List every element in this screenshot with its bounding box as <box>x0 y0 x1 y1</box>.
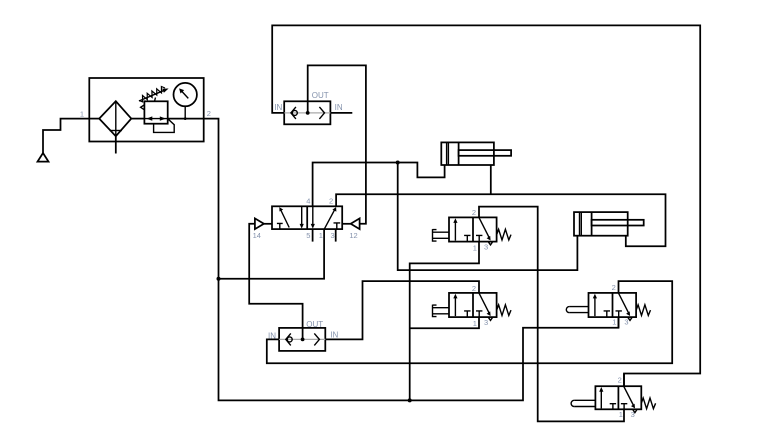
svg-text:1: 1 <box>80 109 84 118</box>
wire port 2 of 5/2 to cylinder C2 right <box>336 194 665 246</box>
svg-text:2: 2 <box>472 208 476 217</box>
pressure regulator <box>139 87 174 133</box>
cylinder C1 <box>441 142 511 165</box>
label 3 V1 <box>484 243 488 252</box>
label 2 V3 <box>612 283 616 292</box>
label IN left S2 <box>268 331 276 340</box>
wire S1 OUT to pilot 12 <box>308 65 366 223</box>
exhaust stub port 5 <box>312 229 314 242</box>
svg-text:OUT: OUT <box>306 320 323 329</box>
wire port 4 to cylinder C1 left <box>313 163 445 207</box>
svg-text:3: 3 <box>624 318 628 327</box>
wire V3 port 1 from supply rail <box>618 317 620 328</box>
wire pilot 14 to shuttle S2 OUT <box>249 224 302 340</box>
svg-text:1: 1 <box>473 243 477 252</box>
junction bottom rail <box>408 398 412 402</box>
pilot 12 triangle <box>342 218 359 229</box>
svg-text:1: 1 <box>619 410 623 419</box>
air service unit enclosure <box>89 78 203 142</box>
label port 1 service unit <box>80 109 84 118</box>
svg-text:IN: IN <box>335 103 343 112</box>
filter with water separator <box>89 101 144 153</box>
3/2 valve V4 body <box>595 386 655 412</box>
label 2 V2 <box>472 284 476 293</box>
label 1 V2 <box>473 319 477 328</box>
svg-text:1: 1 <box>319 231 323 240</box>
label 3 of 5/2 <box>331 231 335 240</box>
svg-text:2: 2 <box>207 109 211 118</box>
label 4 <box>306 197 310 206</box>
supply wire from service unit to junction <box>204 119 219 279</box>
wire branch to cylinder C2 left <box>398 163 578 271</box>
wire supply to port 1 of 5/2 valve <box>219 229 325 279</box>
3/2 valve V1 body <box>449 217 511 245</box>
svg-text:3: 3 <box>631 410 635 419</box>
exhaust stub port 3 of 5/2 <box>335 229 337 242</box>
label 2 of 5/2 <box>329 197 333 206</box>
label 3 V3 <box>624 318 628 327</box>
wire S1 left IN long loop from valve V4 port 2 <box>272 25 700 386</box>
label 12 <box>349 231 357 240</box>
svg-text:IN: IN <box>330 330 338 339</box>
svg-text:2: 2 <box>618 375 622 384</box>
svg-text:2: 2 <box>329 197 333 206</box>
svg-text:OUT: OUT <box>312 91 329 100</box>
wire S1 right IN stub <box>330 112 352 114</box>
shuttle valve S2 <box>279 328 325 351</box>
pin actuator V4 <box>571 400 595 406</box>
pressure gauge <box>168 83 204 120</box>
label 3 V2 <box>484 318 488 327</box>
label 3 V4 <box>631 410 635 419</box>
label 14 <box>253 231 261 240</box>
svg-text:1: 1 <box>473 319 477 328</box>
label 1 of 5/2 <box>319 231 323 240</box>
svg-text:1: 1 <box>612 318 616 327</box>
stem actuator V2 <box>433 305 450 318</box>
junction port 4 branch <box>396 161 400 165</box>
svg-text:2: 2 <box>612 283 616 292</box>
wire supply down and bottom rail <box>219 279 619 401</box>
cylinder C2 <box>574 212 644 236</box>
wire V2 port 2 to shuttle S2 right IN <box>325 281 479 339</box>
svg-text:3: 3 <box>331 231 335 240</box>
wire supply riser to valve V1 port 1 <box>410 242 479 401</box>
svg-text:3: 3 <box>484 318 488 327</box>
label IN right S1 <box>335 103 343 112</box>
label OUT S1 <box>312 91 329 100</box>
label 1 V4 <box>619 410 623 419</box>
svg-text:12: 12 <box>349 231 357 240</box>
svg-text:3: 3 <box>484 243 488 252</box>
svg-text:14: 14 <box>253 231 261 240</box>
label 2 V4 <box>618 375 622 384</box>
wire supply branch to valve V2 port 1 <box>410 317 479 328</box>
label 1 V3 <box>612 318 616 327</box>
label port 2 service unit <box>207 109 211 118</box>
shuttle valve S1 <box>284 101 330 124</box>
junction supply <box>217 277 221 281</box>
pin actuator V3 <box>566 307 588 313</box>
svg-text:IN: IN <box>274 103 282 112</box>
wire cylinder C1 right port <box>490 165 492 194</box>
svg-text:5: 5 <box>306 231 310 240</box>
label 1 V1 <box>473 243 477 252</box>
compressed air source <box>38 119 90 162</box>
svg-text:4: 4 <box>306 197 310 206</box>
label 5 <box>306 231 310 240</box>
3/2 valve V3 body <box>589 293 651 321</box>
label 2 V1 <box>472 208 476 217</box>
svg-text:2: 2 <box>472 284 476 293</box>
5/2 way valve <box>272 206 342 229</box>
wire S2 left IN to valve V3 port 2 <box>267 281 672 363</box>
label OUT S2 <box>306 320 323 329</box>
label IN right S2 <box>330 330 338 339</box>
pilot 14 triangle <box>255 218 272 229</box>
wire V4 port 2 stub <box>623 374 625 387</box>
3/2 valve V2 body <box>449 293 511 321</box>
label IN left S1 <box>274 103 282 112</box>
wire V1 port 2 to V4 port 1 <box>479 207 624 422</box>
stem actuator V1 <box>433 229 450 242</box>
